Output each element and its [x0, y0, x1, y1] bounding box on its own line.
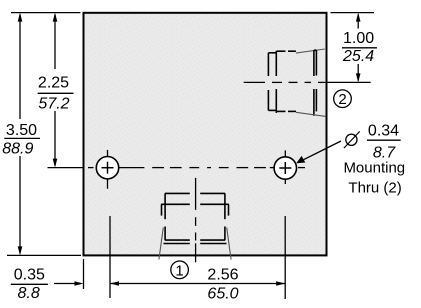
leader arrow to hole 2: [296, 141, 341, 163]
svg-text:88.9: 88.9: [2, 140, 33, 157]
extension line bottom-left: [7, 254, 81, 256]
dimension 2.25 / 57.2: [38, 13, 74, 168]
panel plate: [84, 13, 327, 256]
svg-text:Mounting: Mounting: [343, 160, 405, 177]
dimension 2.56 / 65.0: [110, 267, 285, 303]
svg-text:57.2: 57.2: [38, 96, 69, 113]
extension line hole2 below: [284, 216, 286, 299]
dimension 0.35 / 8.8: [11, 267, 84, 303]
callout circle 2: [334, 90, 352, 108]
extension line top-left: [11, 12, 81, 14]
svg-text:0.35: 0.35: [14, 267, 45, 284]
svg-text:25.4: 25.4: [342, 48, 374, 65]
svg-text:1.00: 1.00: [343, 30, 374, 47]
svg-text:3.50: 3.50: [6, 122, 37, 139]
extension line hole1 below: [109, 216, 111, 298]
svg-text:2.56: 2.56: [207, 267, 238, 284]
hole 1: [96, 150, 118, 189]
label diameter 0.34 / 8.7: [344, 123, 401, 162]
extension line plate left edge below: [83, 259, 85, 289]
extension line top-right: [331, 12, 375, 14]
callout circle 1: [171, 261, 189, 279]
svg-text:2: 2: [338, 91, 346, 108]
connector 1 hidden outline: [159, 193, 231, 259]
extension line hole axis left: [48, 167, 84, 169]
svg-text:8.8: 8.8: [17, 285, 39, 302]
svg-text:1: 1: [175, 262, 183, 279]
centerline connector1 vertical: [195, 178, 197, 262]
dimension 3.50 / 88.9: [2, 13, 40, 256]
centerline hole axis: [88, 167, 305, 169]
svg-text:65.0: 65.0: [207, 286, 238, 303]
dimension 1.00 / 25.4: [342, 13, 377, 83]
svg-text:2.25: 2.25: [38, 75, 69, 92]
connector 2 hidden outline: [268, 49, 326, 116]
svg-text:Thru (2): Thru (2): [348, 179, 401, 196]
centerline connector2 horizontal: [244, 81, 327, 83]
hole 2: [274, 150, 296, 184]
extension line connector2 axis right: [327, 81, 371, 83]
label Mounting Thru (2): [343, 160, 405, 197]
svg-text:0.34: 0.34: [368, 123, 399, 140]
